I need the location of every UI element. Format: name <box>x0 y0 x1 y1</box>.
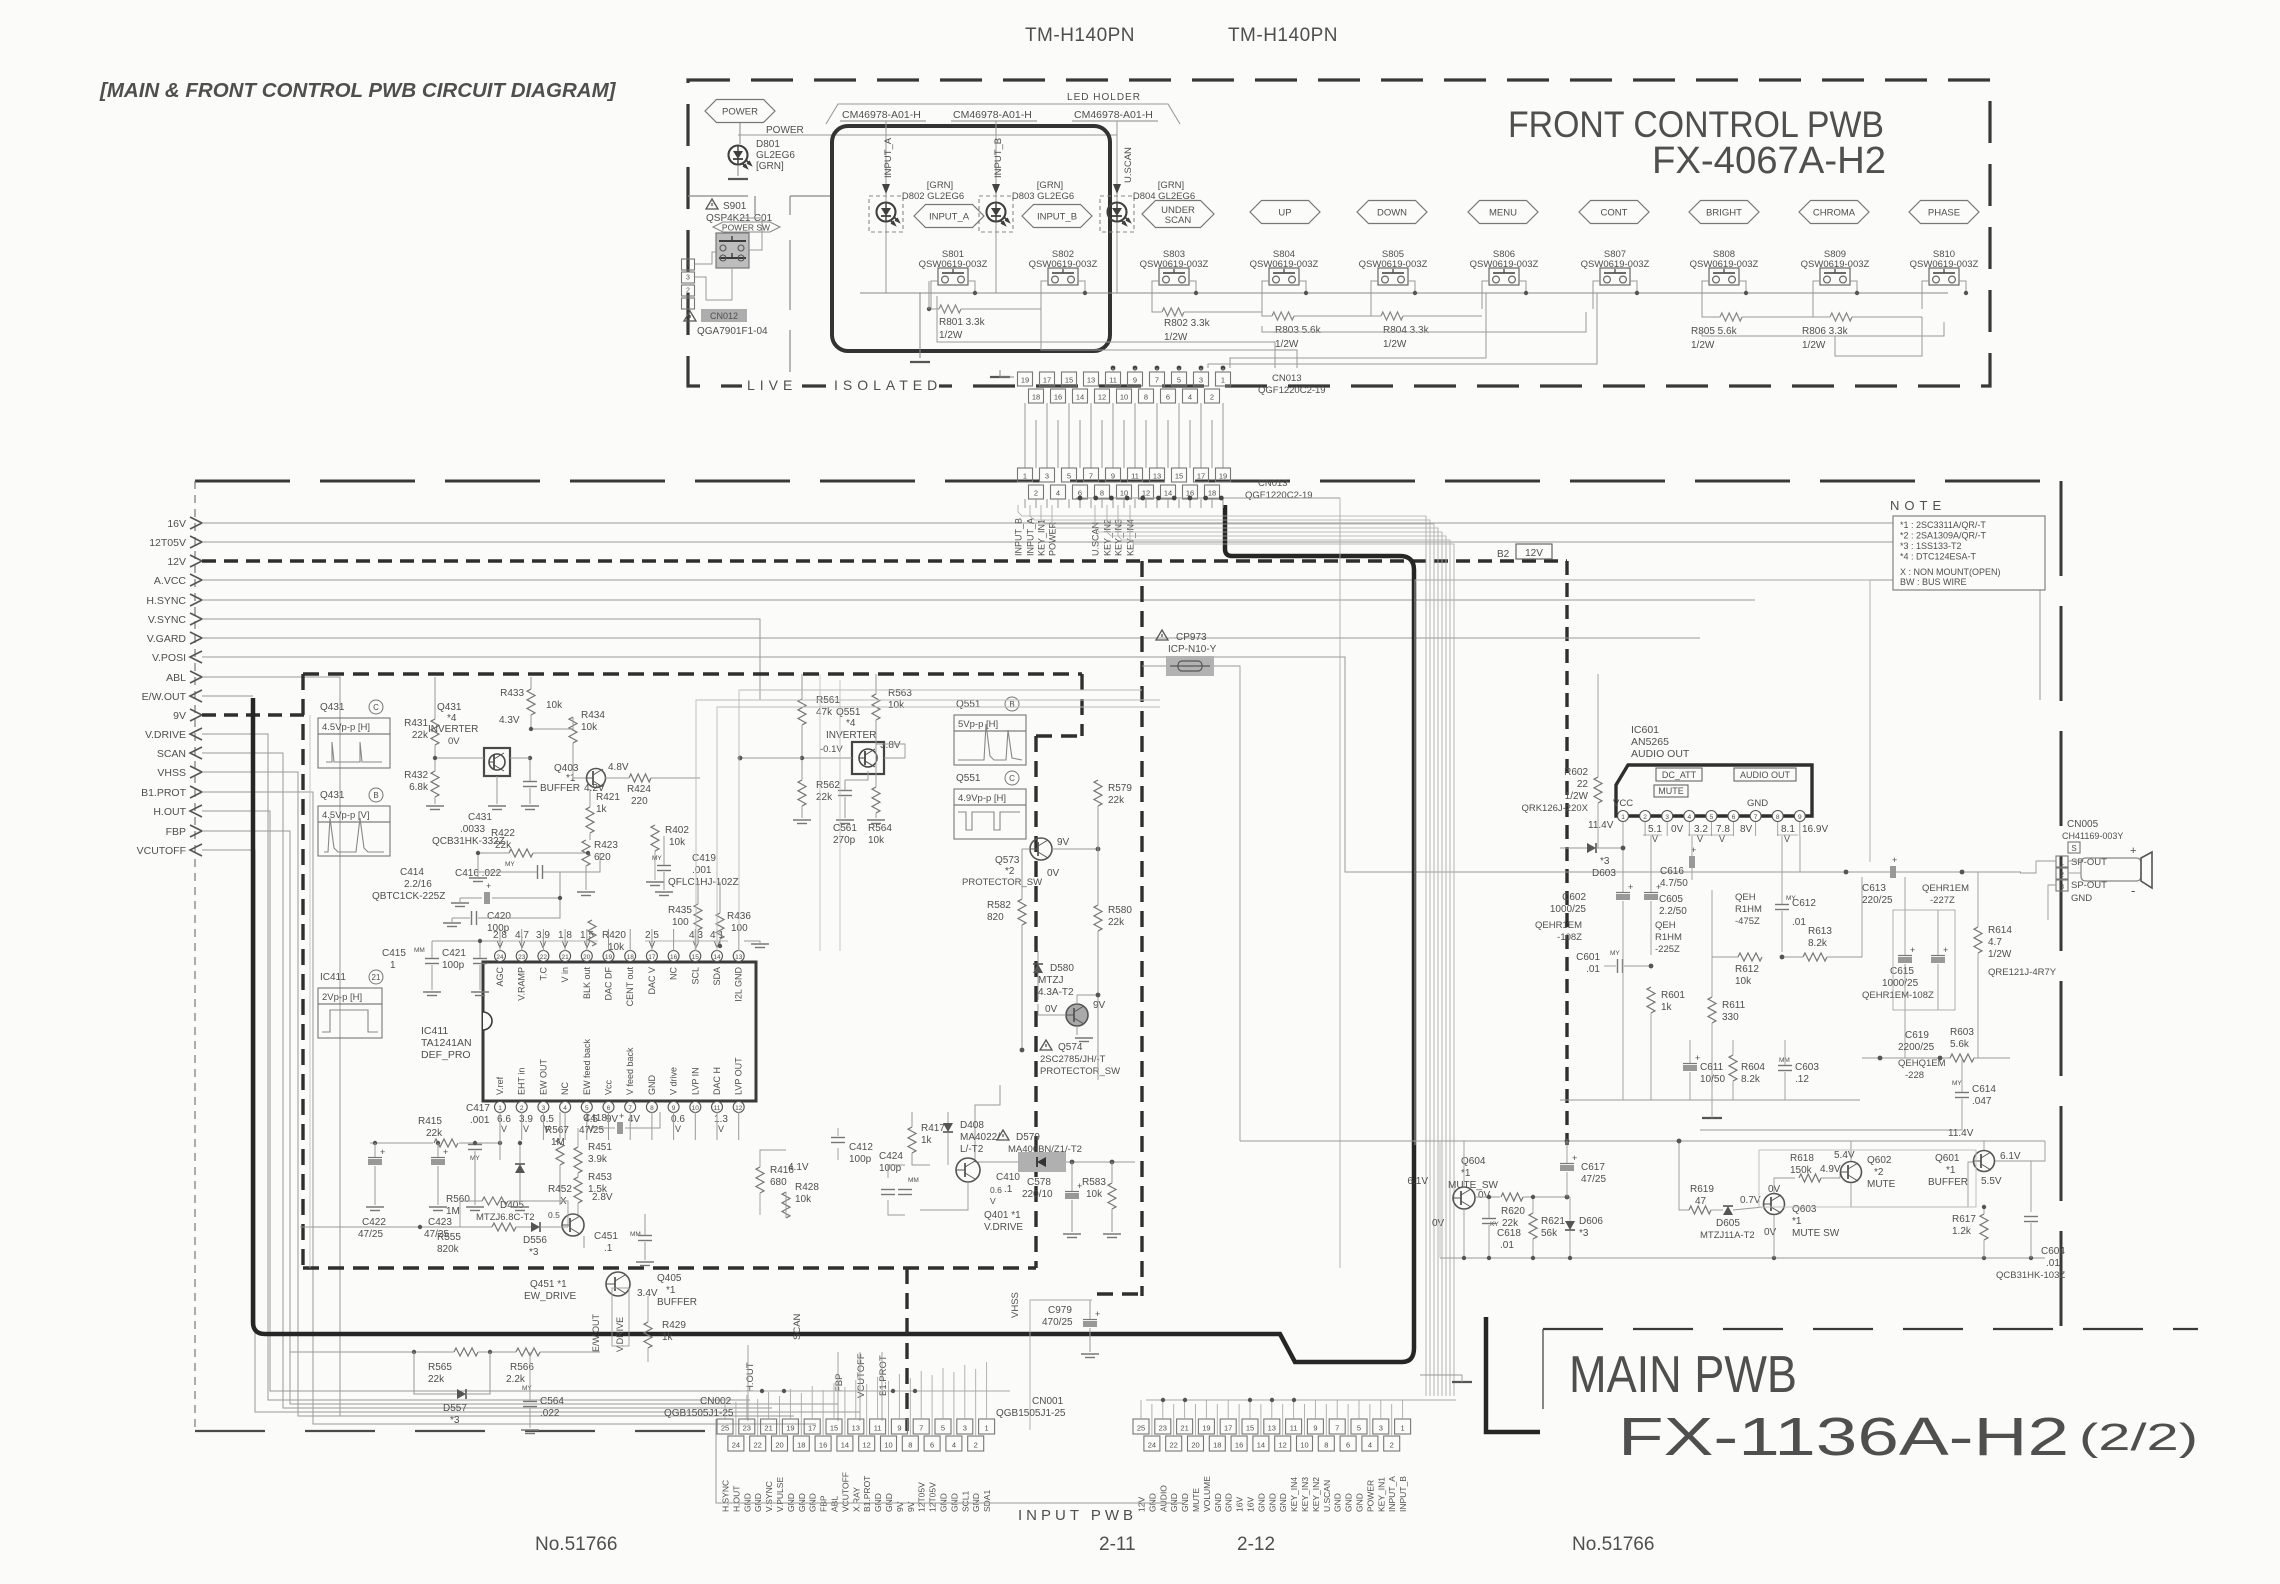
svg-text:C414: C414 <box>400 867 424 878</box>
svg-text:V: V <box>523 1124 529 1134</box>
svg-text:UP: UP <box>1278 208 1291 219</box>
wires keys to CN013 <box>937 296 1275 368</box>
capacitor C420 100p <box>471 911 473 925</box>
pin 9 IC411 bottom <box>668 1102 679 1113</box>
svg-text:EW_DRIVE: EW_DRIVE <box>524 1291 577 1302</box>
svg-text:C451: C451 <box>594 1231 618 1242</box>
svg-text:.12: .12 <box>1795 1074 1809 1085</box>
svg-text:V: V <box>1784 834 1790 844</box>
wire D801 cathode <box>737 165 739 176</box>
pin 18 IC411 top <box>625 951 636 962</box>
wire bus above CN001 <box>1146 1399 1456 1401</box>
svg-text:C604: C604 <box>2041 1246 2065 1257</box>
label MUTE box <box>1654 785 1688 797</box>
wires S804 legs <box>1262 281 1269 309</box>
svg-text:PROTECTOR_SW: PROTECTOR_SW <box>962 877 1042 888</box>
svg-text:MM: MM <box>908 1177 919 1184</box>
svg-text:ICP-N10-Y: ICP-N10-Y <box>1168 644 1217 655</box>
svg-text:R434: R434 <box>581 710 605 721</box>
svg-text:[GRN]: [GRN] <box>756 161 784 172</box>
wires Q431 cluster <box>434 677 436 719</box>
pin 14 IC411 top <box>712 951 723 962</box>
svg-text:+: + <box>619 1111 624 1121</box>
svg-text:MUTE SW: MUTE SW <box>1792 1228 1840 1239</box>
svg-text:C615: C615 <box>1890 966 1914 977</box>
svg-text:22: 22 <box>1577 779 1589 790</box>
svg-text:10k: 10k <box>888 700 905 711</box>
svg-text:4.7/50: 4.7/50 <box>1660 878 1688 889</box>
svg-text:GND: GND <box>1747 798 1768 809</box>
svg-text:R619: R619 <box>1690 1184 1714 1195</box>
svg-text:C: C <box>373 703 379 712</box>
net wires to bundle <box>1018 505 1426 1396</box>
label LIVE <box>742 376 802 392</box>
svg-text:C603: C603 <box>1795 1062 1819 1073</box>
svg-text:5.6k: 5.6k <box>1950 1039 1970 1050</box>
svg-text:1: 1 <box>1621 814 1625 821</box>
svg-text:CONT: CONT <box>1601 208 1628 219</box>
pin 5 IC411 bottom <box>581 1102 592 1113</box>
svg-text:11: 11 <box>1290 1424 1298 1433</box>
svg-text:V: V <box>990 1196 996 1206</box>
svg-text:23: 23 <box>1159 1424 1167 1433</box>
pin 15 IC411 top <box>690 951 701 962</box>
svg-text:QGF1220C2-19: QGF1220C2-19 <box>1245 490 1313 501</box>
resistor R429 1k <box>644 1322 652 1348</box>
svg-text:-475Z: -475Z <box>1735 916 1760 927</box>
svg-text:19: 19 <box>1219 472 1227 481</box>
capacitor C616 4.7/50 <box>1689 856 1695 868</box>
svg-text:7: 7 <box>1335 1424 1339 1433</box>
hexagon PHASE <box>1909 201 1979 224</box>
capacitor C604 .01 <box>2024 1216 2038 1218</box>
svg-text:LVP OUT: LVP OUT <box>734 1057 744 1095</box>
svg-text:FBP: FBP <box>819 1495 829 1512</box>
svg-text:5: 5 <box>1357 1424 1361 1433</box>
svg-text:1/2W: 1/2W <box>1164 332 1188 343</box>
audio block boundary wires <box>1415 580 1870 1145</box>
svg-text:2200/25: 2200/25 <box>1898 1042 1935 1053</box>
transistor Q604 MUTE_SW <box>1453 1187 1475 1209</box>
svg-text:V.DRIVE: V.DRIVE <box>145 729 186 741</box>
transistor Q574 protector <box>1066 1004 1088 1026</box>
wires R565 row <box>290 1351 454 1353</box>
svg-text:R613: R613 <box>1808 926 1832 937</box>
svg-text:MUTE_SW: MUTE_SW <box>1448 1180 1499 1191</box>
svg-text:H.OUT: H.OUT <box>745 1362 756 1392</box>
svg-text:L/-T2: L/-T2 <box>960 1144 984 1155</box>
svg-text:2: 2 <box>1390 1441 1394 1450</box>
svg-text:1/2W: 1/2W <box>1691 340 1715 351</box>
resistor R565 22k <box>454 1348 478 1356</box>
svg-text:15: 15 <box>1175 472 1183 481</box>
wire power net <box>739 123 741 144</box>
resistor R433 10k <box>527 689 535 715</box>
svg-text:7: 7 <box>1155 376 1159 385</box>
svg-text:*2 : 2SA1309A/QR/-T: *2 : 2SA1309A/QR/-T <box>1900 531 1987 541</box>
svg-text:Q551: Q551 <box>956 699 981 710</box>
svg-text:R603: R603 <box>1950 1027 1974 1038</box>
svg-text:9V: 9V <box>606 1114 619 1125</box>
wire ABL <box>202 677 340 1416</box>
resistor R567 1M <box>556 1139 564 1165</box>
svg-text:+: + <box>1910 945 1915 955</box>
svg-text:DEF_PRO: DEF_PRO <box>421 1049 471 1061</box>
svg-text:QGB1505J1-25: QGB1505J1-25 <box>664 1408 734 1419</box>
svg-text:4.1V: 4.1V <box>788 1162 809 1173</box>
resistor R416 680 <box>756 1167 764 1193</box>
wire scl sda to right <box>696 700 1160 951</box>
ground key matrix <box>910 361 930 363</box>
main pwb dashed border right <box>2060 481 2063 1330</box>
svg-text:R420: R420 <box>602 930 626 941</box>
svg-text:7: 7 <box>1754 814 1758 821</box>
svg-text:1/2W: 1/2W <box>1988 949 2012 960</box>
svg-text:22k: 22k <box>428 1374 445 1385</box>
svg-text:13: 13 <box>735 954 743 961</box>
svg-text:9: 9 <box>672 1105 676 1112</box>
svg-text:QEHR1EM-108Z: QEHR1EM-108Z <box>1862 990 1934 1001</box>
svg-text:47k: 47k <box>816 707 833 718</box>
svg-text:20: 20 <box>583 954 591 961</box>
svg-text:IC601: IC601 <box>1631 724 1659 736</box>
svg-text:H.OUT: H.OUT <box>153 806 186 818</box>
svg-text:*1 : 2SC3311A/QR/-T: *1 : 2SC3311A/QR/-T <box>1900 520 1986 530</box>
svg-text:GND: GND <box>1256 1493 1266 1512</box>
svg-text:ABL: ABL <box>166 672 186 684</box>
svg-text:R555: R555 <box>437 1232 461 1243</box>
svg-text:9: 9 <box>897 1424 901 1433</box>
svg-text:+: + <box>1095 1309 1100 1319</box>
svg-text:13: 13 <box>1087 376 1095 385</box>
svg-text:4.7: 4.7 <box>1988 937 2002 948</box>
svg-text:17: 17 <box>808 1424 816 1433</box>
svg-text:*3: *3 <box>450 1415 460 1426</box>
wire live-isolated partition <box>754 196 756 215</box>
svg-text:CP973: CP973 <box>1176 632 1207 643</box>
wires IC411 top pins <box>499 929 501 951</box>
wire B1.PROT <box>202 792 816 1424</box>
svg-text:MUTE: MUTE <box>1191 1488 1201 1512</box>
svg-text:220/25: 220/25 <box>1862 895 1893 906</box>
svg-text:24: 24 <box>1148 1441 1156 1450</box>
svg-text:R424: R424 <box>627 784 651 795</box>
svg-text:.01: .01 <box>1586 964 1600 975</box>
capacitor C613 220/25 <box>1890 866 1896 878</box>
svg-text:POWER: POWER <box>722 107 758 118</box>
svg-text:1: 1 <box>1023 472 1027 481</box>
svg-text:23: 23 <box>518 954 526 961</box>
power switch S901 body <box>716 233 749 268</box>
junction dots CN013 <box>1111 366 1116 371</box>
svg-text:1/2W: 1/2W <box>939 330 963 341</box>
connector CN013 upper <box>1018 372 1033 386</box>
pin 19 IC411 top <box>603 951 614 962</box>
svg-text:7: 7 <box>919 1424 923 1433</box>
wires S808 legs <box>1702 281 1709 309</box>
wire SCAN <box>202 753 772 1408</box>
svg-text:10: 10 <box>1120 393 1128 402</box>
svg-text:18: 18 <box>1208 489 1216 498</box>
svg-text:R602: R602 <box>1564 767 1588 778</box>
svg-text:R620: R620 <box>1501 1206 1525 1217</box>
svg-text:E/W.OUT: E/W.OUT <box>142 691 187 703</box>
wires Q601 <box>1983 1141 1985 1150</box>
svg-text:MTZJ6.8C-T2: MTZJ6.8C-T2 <box>476 1212 535 1223</box>
svg-text:B2: B2 <box>1497 549 1510 560</box>
svg-text:R580: R580 <box>1108 905 1132 916</box>
svg-text:D603: D603 <box>1592 868 1616 879</box>
svg-text:IC411: IC411 <box>421 1025 448 1037</box>
svg-text:B1.PROT: B1.PROT <box>862 1476 872 1512</box>
resistor R802 3.3k <box>1162 308 1184 316</box>
resistor R428 10k <box>782 1192 790 1218</box>
resistor R582 820 <box>1018 899 1026 925</box>
svg-text:13: 13 <box>1268 1424 1276 1433</box>
svg-text:8: 8 <box>1776 814 1780 821</box>
svg-text:GND: GND <box>1213 1493 1223 1512</box>
svg-text:QRK126J-220X: QRK126J-220X <box>1521 803 1588 814</box>
svg-text:7: 7 <box>628 1105 632 1112</box>
svg-text:680: 680 <box>770 1177 787 1188</box>
svg-text:BW : BUS WIRE: BW : BUS WIRE <box>1900 577 1967 587</box>
wires R555/D556 row <box>420 1226 492 1228</box>
svg-text:4: 4 <box>563 1105 567 1112</box>
mute bottom bus <box>1440 1257 2045 1259</box>
svg-text:H.SYNC: H.SYNC <box>721 1480 731 1512</box>
grounds Q431 cluster <box>577 891 595 893</box>
svg-text:GND: GND <box>1333 1493 1343 1512</box>
svg-text:*1: *1 <box>1792 1216 1802 1227</box>
svg-text:SDA: SDA <box>712 967 722 986</box>
resistor R612 10k <box>1738 953 1762 961</box>
wire H.OUT <box>202 811 748 1391</box>
resistor R579 22k <box>1094 780 1102 806</box>
svg-text:4.9Vp-p [H]: 4.9Vp-p [H] <box>958 793 1006 804</box>
svg-text:KEY_IN1: KEY_IN1 <box>1376 1477 1386 1512</box>
svg-text:5: 5 <box>1067 472 1071 481</box>
wire bus above CN002 <box>740 1390 1010 1392</box>
svg-text:6: 6 <box>930 1441 934 1450</box>
svg-text:R565: R565 <box>428 1362 452 1373</box>
resistor R420 10k <box>588 920 596 946</box>
label DC_ATT <box>1656 768 1702 781</box>
svg-text:BLK out: BLK out <box>582 967 592 1000</box>
svg-text:12: 12 <box>735 1105 743 1112</box>
svg-text:V: V <box>675 1124 681 1134</box>
svg-text:POWER: POWER <box>1365 1480 1375 1512</box>
wires CN013 upper to lower <box>1024 403 1026 468</box>
svg-text:C422: C422 <box>362 1217 386 1228</box>
wire audio out net <box>1800 836 1888 872</box>
svg-text:1/2W: 1/2W <box>1565 791 1589 802</box>
transistor Q401 V.DRIVE <box>956 1158 980 1182</box>
svg-text:*4 : DTC124ESA-T: *4 : DTC124ESA-T <box>1900 552 1977 562</box>
svg-text:6: 6 <box>1732 814 1736 821</box>
svg-text:.1: .1 <box>1004 1184 1013 1195</box>
svg-text:21: 21 <box>561 954 569 961</box>
pin 22 IC411 top <box>538 951 549 962</box>
svg-text:BUFFER: BUFFER <box>540 783 580 794</box>
svg-text:V.DRIVE: V.DRIVE <box>615 1317 625 1352</box>
svg-text:Q604: Q604 <box>1461 1156 1486 1167</box>
svg-text:QGF1220C2-19: QGF1220C2-19 <box>1258 385 1326 396</box>
pin 3 IC411 bottom <box>538 1102 549 1113</box>
svg-text:*4: *4 <box>447 713 457 724</box>
svg-text:+: + <box>380 1147 385 1157</box>
input pwb label box <box>716 1419 1183 1503</box>
svg-text:.001: .001 <box>470 1115 490 1126</box>
svg-text:12: 12 <box>1098 393 1106 402</box>
svg-text:+: + <box>1943 945 1948 955</box>
svg-text:11: 11 <box>714 1105 721 1112</box>
svg-text:4: 4 <box>1188 393 1192 402</box>
dashed border right column <box>1140 561 1143 1296</box>
transistor Q602 MUTE <box>1841 1162 1862 1183</box>
svg-text:SDA1: SDA1 <box>982 1490 992 1512</box>
svg-text:2-11: 2-11 <box>1099 1534 1136 1555</box>
resistor R453 1.5k <box>574 1177 582 1203</box>
wires R415 row <box>370 1142 433 1144</box>
svg-text:VHSS: VHSS <box>157 767 186 779</box>
svg-text:C614: C614 <box>1972 1084 1996 1095</box>
svg-text:4.9V: 4.9V <box>1820 1164 1841 1175</box>
capacitor C431 .0033 <box>523 781 537 783</box>
svg-text:INPUT_B: INPUT_B <box>1037 212 1077 223</box>
svg-text:820: 820 <box>987 912 1004 923</box>
svg-text:R612: R612 <box>1735 964 1759 975</box>
wires Q551 cluster <box>801 674 803 699</box>
svg-text:R564: R564 <box>868 823 892 834</box>
svg-text:U.SCAN: U.SCAN <box>1123 147 1134 183</box>
svg-text:SCL1: SCL1 <box>960 1490 970 1512</box>
svg-text:MA4022/: MA4022/ <box>960 1132 1000 1143</box>
svg-text:EHT in: EHT in <box>517 1068 527 1095</box>
resistor R617 1.2k <box>1980 1214 1988 1240</box>
svg-text:V: V <box>1697 834 1703 844</box>
svg-text:10/50: 10/50 <box>1700 1074 1725 1085</box>
svg-text:CM46978-A01-H: CM46978-A01-H <box>842 109 921 121</box>
svg-text:KY: KY <box>1490 1221 1499 1228</box>
svg-text:15: 15 <box>692 954 700 961</box>
svg-text:R435: R435 <box>668 905 692 916</box>
svg-text:10k: 10k <box>868 835 885 846</box>
svg-text:*3 : 1SS133-T2: *3 : 1SS133-T2 <box>1900 541 1962 551</box>
svg-text:D408: D408 <box>960 1120 984 1131</box>
wire speaker feed <box>2068 860 2081 862</box>
svg-text:14: 14 <box>713 954 721 961</box>
svg-text:CN013: CN013 <box>1272 373 1302 384</box>
svg-text:VHSS: VHSS <box>1010 1292 1021 1318</box>
resistor R423 620 <box>582 840 590 866</box>
pin 11 IC411 bottom <box>712 1102 723 1113</box>
svg-text:V in: V in <box>560 967 570 983</box>
svg-text:C605: C605 <box>1659 894 1683 905</box>
svg-text:R415: R415 <box>418 1116 442 1127</box>
svg-text:FRONT CONTROL PWB: FRONT CONTROL PWB <box>1508 104 1884 145</box>
svg-text:7: 7 <box>1089 472 1093 481</box>
LED D801 <box>729 146 748 165</box>
svg-text:22: 22 <box>1170 1441 1178 1450</box>
resistor R801 3.3k <box>939 305 961 313</box>
svg-text:V.ref: V.ref <box>495 1076 505 1095</box>
resistor R580 22k <box>1094 905 1102 931</box>
IC IC601 body <box>1616 765 1812 816</box>
svg-text:21: 21 <box>764 1424 772 1433</box>
svg-text:56k: 56k <box>1541 1228 1558 1239</box>
svg-text:9V: 9V <box>1057 837 1070 848</box>
svg-text:ABL: ABL <box>830 1496 840 1512</box>
svg-text:C417: C417 <box>466 1103 490 1114</box>
svg-text:R567: R567 <box>545 1125 569 1136</box>
resistor R803 5.6k <box>1272 312 1294 320</box>
svg-text:VCUTOFF: VCUTOFF <box>137 845 186 857</box>
svg-text:0V: 0V <box>1047 868 1060 879</box>
svg-text:4: 4 <box>1368 1441 1372 1450</box>
svg-text:12T05V: 12T05V <box>928 1482 938 1512</box>
resistor R561 47k <box>798 699 806 725</box>
svg-text:NC: NC <box>560 1082 570 1095</box>
svg-text:C564: C564 <box>540 1396 564 1407</box>
svg-text:2: 2 <box>1210 393 1214 402</box>
svg-text:11: 11 <box>1131 472 1139 481</box>
capacitor C605 2.2/50 <box>1644 894 1658 900</box>
svg-text:10: 10 <box>1300 1441 1308 1450</box>
mute circuit top wire <box>1240 1140 2045 1142</box>
svg-text:47/25: 47/25 <box>1581 1174 1606 1185</box>
thick bus E/W wire <box>253 505 1414 1362</box>
svg-text:-: - <box>2131 883 2135 898</box>
wires to CN002 <box>747 1345 749 1421</box>
main pwb dashed border top <box>195 480 2061 483</box>
svg-text:D802 GL2EG6: D802 GL2EG6 <box>902 191 964 202</box>
svg-text:SCAN: SCAN <box>792 1313 803 1340</box>
svg-text:25: 25 <box>1137 1424 1145 1433</box>
svg-text:QEHR1EM: QEHR1EM <box>1922 883 1969 894</box>
svg-text:13: 13 <box>852 1424 860 1433</box>
IC601 pins <box>1618 811 1629 822</box>
svg-text:TA1241AN: TA1241AN <box>421 1037 472 1049</box>
svg-text:V.PULSE: V.PULSE <box>775 1477 785 1512</box>
svg-text:CHROMA: CHROMA <box>1813 208 1856 219</box>
wire E/W.OUT <box>202 695 253 697</box>
svg-text:R604: R604 <box>1741 1062 1765 1073</box>
svg-text:V.POSI: V.POSI <box>152 652 186 664</box>
svg-text:6.8k: 6.8k <box>409 782 429 793</box>
wire A.VCC <box>202 580 2040 700</box>
diode D580 MTZJ 4.3A-T2 <box>1033 964 1043 973</box>
svg-text:+: + <box>1572 1153 1577 1163</box>
pin 6 IC411 bottom <box>603 1102 614 1113</box>
svg-text:14: 14 <box>1076 393 1084 402</box>
LED D803 <box>987 203 1006 222</box>
ground bus below CN013 <box>1076 497 1340 499</box>
svg-text:C424: C424 <box>879 1151 903 1162</box>
svg-text:1/2W: 1/2W <box>1383 339 1407 350</box>
pin 24 IC411 top <box>495 951 506 962</box>
svg-text:X.RAY: X.RAY <box>851 1487 861 1512</box>
svg-text:10k: 10k <box>608 942 625 953</box>
resistor R566 2.2k <box>516 1348 540 1356</box>
svg-text:INPUT_A: INPUT_A <box>1026 518 1036 556</box>
svg-text:18: 18 <box>1213 1441 1221 1450</box>
wire audio column bundle <box>0 0 1 1</box>
svg-text:C578: C578 <box>1027 1177 1051 1188</box>
svg-text:11: 11 <box>1109 376 1117 385</box>
svg-text:C619: C619 <box>1905 1030 1929 1041</box>
svg-text:GND: GND <box>1224 1493 1234 1512</box>
diode D603 <box>1587 843 1596 853</box>
